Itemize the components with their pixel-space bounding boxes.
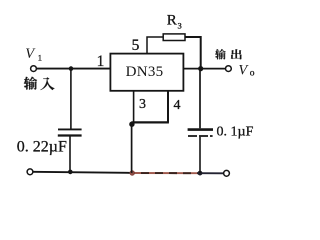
svg-text:3: 3	[178, 21, 182, 31]
svg-text:1: 1	[97, 53, 105, 70]
junction node E (pins 3-4)	[129, 122, 134, 127]
wire pin 4 down	[167, 91, 169, 123]
wire pins 3-4 horizontal link	[131, 121, 169, 123]
resistor R3 body	[163, 34, 185, 41]
svg-text:o: o	[250, 69, 255, 79]
svg-text:5: 5	[132, 37, 140, 54]
capacitor C1 top plate	[58, 128, 82, 130]
wire C1 to ground rail	[69, 137, 71, 172]
wire pin 3 down	[133, 91, 135, 123]
svg-text:DN35: DN35	[126, 64, 164, 80]
input terminal Vi	[31, 66, 37, 72]
junction node A	[69, 66, 74, 71]
svg-text:V: V	[25, 46, 36, 62]
junction node D (output)	[198, 66, 203, 71]
wire R3 right to output node	[185, 37, 201, 68]
wire pin 5 up and to R3	[147, 37, 163, 54]
svg-text:3: 3	[139, 97, 146, 112]
wire output node down to C2	[199, 69, 201, 129]
wire U1 output to terminal	[183, 68, 225, 70]
ground rail middle segment (discoloured)	[132, 172, 200, 174]
wire input to pin 1	[37, 68, 111, 70]
junction node B (rail / pins 3-4 wire)	[130, 170, 135, 175]
ground rail left segment	[33, 172, 132, 173]
junction node F (C1 / rail)	[68, 170, 73, 175]
svg-text:V: V	[238, 62, 249, 78]
ground rail right segment	[200, 172, 224, 174]
svg-text:1: 1	[38, 53, 42, 63]
capacitor C2 bottom plate	[188, 135, 213, 137]
label 输出 (output)	[215, 49, 242, 59]
ground rail middle dark dashes	[132, 172, 200, 174]
output terminal Vo	[226, 66, 232, 72]
op-amp U1 DN35 box	[110, 54, 183, 91]
junction node C (rail / C2)	[198, 171, 203, 176]
svg-text:0. 1µF: 0. 1µF	[217, 124, 254, 139]
svg-text:4: 4	[174, 98, 181, 113]
bottom left terminal	[27, 169, 33, 175]
wire node E down to rail	[131, 124, 133, 173]
svg-text:0. 22µF: 0. 22µF	[17, 138, 67, 155]
label 输入 (input)	[24, 77, 55, 90]
capacitor C1 bottom plate	[58, 134, 82, 136]
svg-text:R: R	[167, 12, 177, 28]
bottom right terminal	[224, 170, 230, 176]
wire C2 to ground rail	[199, 137, 201, 173]
wire node A down to C1	[70, 69, 72, 129]
capacitor C2 top plate	[188, 128, 213, 131]
